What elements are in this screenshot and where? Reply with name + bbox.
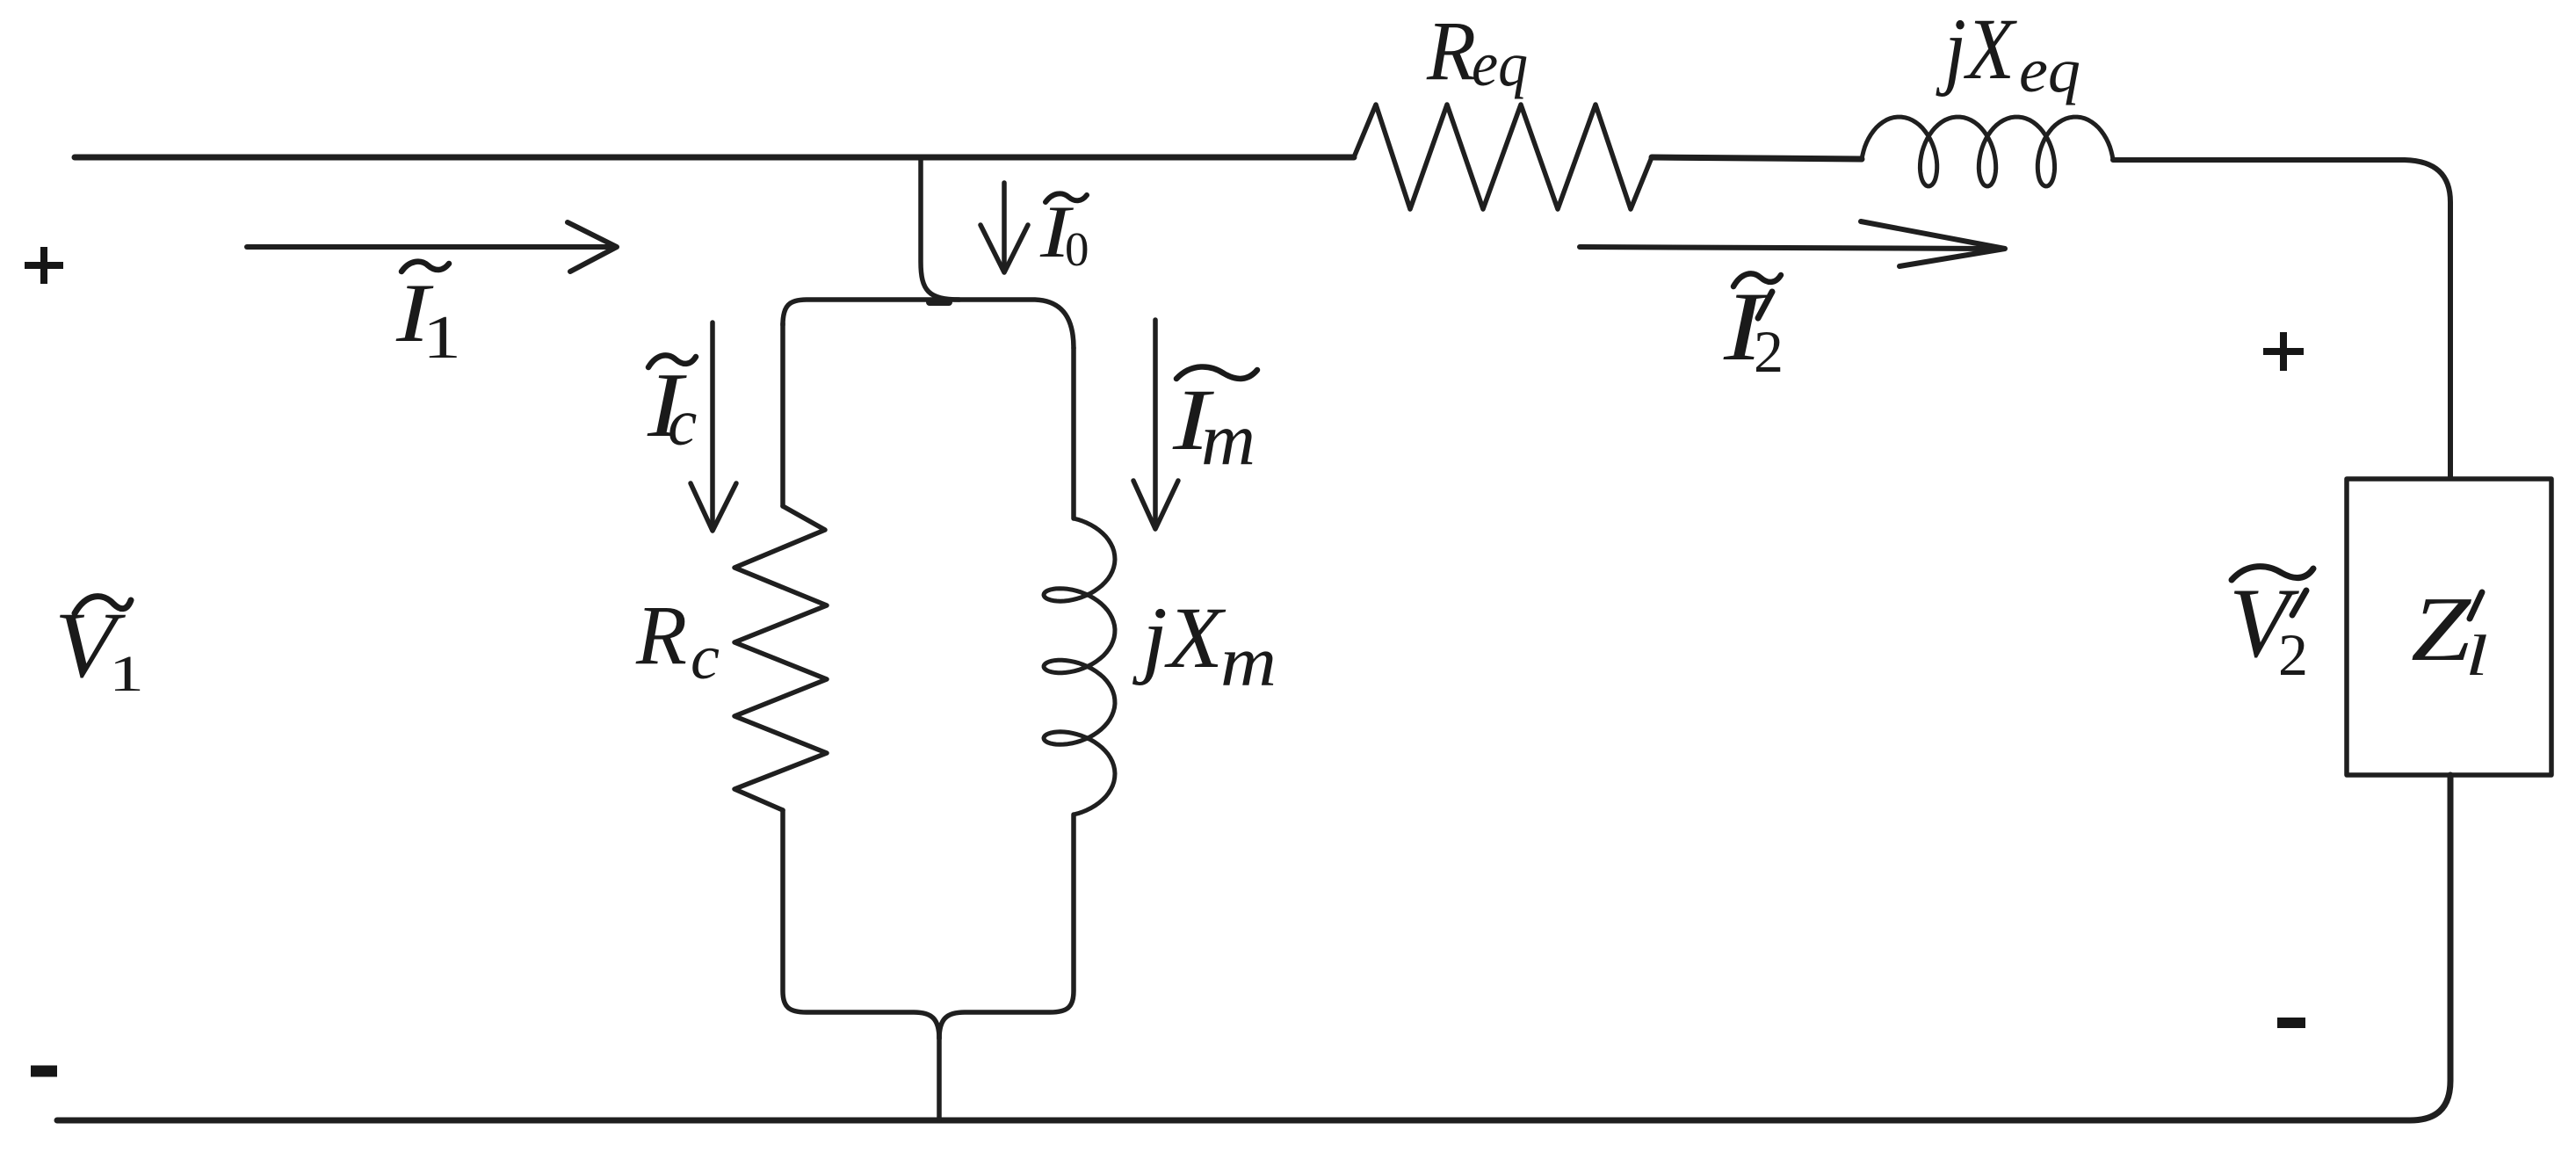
- wire top left: [75, 155, 1354, 161]
- tilde over I2p: [1733, 273, 1781, 286]
- arrow I2p: [1580, 247, 1994, 249]
- left branch upper wire: [780, 323, 785, 506]
- left branch lower wire into bottom bar: [783, 810, 939, 1039]
- svg-text:l: l: [2465, 624, 2488, 688]
- arrow Ic: [710, 322, 715, 525]
- svg-text:Z: Z: [2411, 577, 2472, 680]
- svg-text:m: m: [1220, 621, 1277, 701]
- svg-text:0: 0: [1065, 222, 1089, 276]
- prime of V2p: [2292, 590, 2306, 615]
- wire right lower and bottom: [57, 775, 2450, 1120]
- svg-text:jX: jX: [1936, 0, 2017, 98]
- right branch upper wire: [1071, 348, 1076, 518]
- plus left: [25, 247, 63, 284]
- svg-text:R: R: [1426, 4, 1476, 98]
- prime of Zl: [2470, 592, 2482, 619]
- prime of I2p: [1758, 292, 1772, 318]
- wire top right with corner: [2113, 160, 2450, 478]
- tilde over I0: [1046, 193, 1087, 202]
- wire between Req and jXeq: [1652, 157, 1862, 159]
- minus left: [31, 1066, 57, 1077]
- inductor jXeq: [1862, 117, 2113, 186]
- junction stub from top wire: [921, 160, 959, 300]
- svg-text:2: 2: [2278, 621, 2308, 688]
- tilde over V1: [75, 597, 131, 613]
- svg-text:eq: eq: [1472, 29, 1528, 99]
- inductor jXm: [1044, 518, 1115, 815]
- svg-text:jX: jX: [1132, 589, 1226, 686]
- junction blob: [930, 299, 949, 306]
- resistor Rc: [734, 506, 827, 810]
- svg-text:m: m: [1201, 398, 1255, 481]
- minus right: [2277, 1018, 2305, 1028]
- svg-text:eq: eq: [2019, 35, 2080, 105]
- right branch lower wire into bottom bar: [939, 815, 1074, 1039]
- svg-text:c: c: [691, 622, 720, 692]
- bottom stub to bottom wire: [937, 1035, 942, 1120]
- arrow I0: [1002, 183, 1007, 268]
- arrow Im: [1153, 320, 1158, 524]
- svg-text:2: 2: [1754, 318, 1784, 385]
- wide tilde over Im: [1176, 366, 1257, 379]
- wide tilde over V2p: [2232, 567, 2313, 580]
- svg-text:c: c: [668, 387, 697, 460]
- arrow I1: [247, 244, 611, 250]
- svg-text:1: 1: [109, 645, 144, 702]
- tilde over I1: [402, 262, 449, 272]
- svg-text:1: 1: [423, 304, 461, 372]
- load box Zl: [2347, 479, 2551, 775]
- plus right: [2263, 332, 2304, 371]
- tilde over Ic: [648, 355, 696, 367]
- top bar of parallel branch: [783, 300, 1074, 348]
- svg-text:R: R: [635, 588, 687, 682]
- resistor Req: [1354, 105, 1652, 209]
